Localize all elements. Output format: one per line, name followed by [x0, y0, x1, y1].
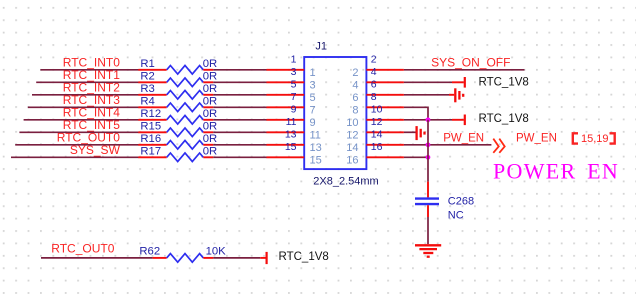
- wire pin8 to bus node: [404, 107, 428, 120]
- svg-text:0R: 0R: [203, 145, 217, 157]
- pin 12 (J1 right): [346, 116, 404, 141]
- svg-text:10: 10: [371, 104, 383, 116]
- sheet ref [15,19]: [573, 133, 615, 145]
- pin 3 (J1 left): [267, 66, 316, 91]
- svg-text:RTC_OUT0: RTC_OUT0: [51, 241, 114, 255]
- svg-text:POWER EN: POWER EN: [493, 158, 619, 183]
- svg-text:13: 13: [310, 142, 322, 154]
- junction PW_EN: [426, 142, 431, 147]
- svg-text:13: 13: [285, 129, 297, 141]
- svg-text:R1: R1: [140, 58, 154, 70]
- svg-text:12: 12: [346, 130, 358, 142]
- svg-text:14: 14: [371, 129, 383, 141]
- svg-text:2: 2: [352, 67, 358, 79]
- svg-text:7: 7: [310, 105, 316, 117]
- pin 13 (J1 left): [267, 129, 322, 154]
- pin 1 (J1 left): [267, 54, 316, 79]
- wire pin4 to RTC_1V8: [404, 81, 452, 83]
- resistor R1 value 0R: [138, 58, 217, 74]
- svg-text:1: 1: [310, 67, 316, 79]
- pin 6 (J1 right): [352, 79, 404, 104]
- connector J1 2X8_2.54mm: [304, 57, 366, 169]
- svg-text:0R: 0R: [203, 70, 217, 82]
- resistor R17 value 0R: [138, 145, 217, 161]
- svg-text:R17: R17: [140, 145, 161, 157]
- pin 5 (J1 left): [267, 79, 316, 104]
- wire C268 to ground: [427, 217, 429, 244]
- svg-text:10K: 10K: [206, 246, 227, 258]
- svg-text:C268: C268: [448, 195, 474, 207]
- wire SYS_SW to J1: [213, 156, 267, 158]
- svg-text:R15: R15: [140, 120, 161, 132]
- svg-text:PW_EN: PW_EN: [516, 133, 557, 145]
- junction pin8/pin10: [426, 117, 431, 122]
- wire RTC_INT0 to J1: [213, 69, 267, 71]
- svg-text:R4: R4: [140, 95, 154, 107]
- svg-text:10: 10: [346, 117, 358, 129]
- wire R62 to RTC_1V8: [213, 257, 260, 259]
- pin 7 (J1 left): [267, 91, 316, 116]
- svg-text:4: 4: [371, 66, 377, 78]
- wire RTC_INT5 to J1: [213, 131, 267, 133]
- pin 10 (J1 right): [346, 104, 404, 129]
- wire net RTC_INT3 left: [28, 106, 139, 108]
- svg-text:RTC_1V8: RTC_1V8: [279, 251, 329, 263]
- wire net RTC_OUT0 left: [15, 144, 138, 146]
- resistor R2 value 0R: [138, 70, 217, 86]
- pin 4 (J1 right): [352, 66, 404, 91]
- svg-text:2X8_2.54mm: 2X8_2.54mm: [313, 176, 378, 188]
- earth ground (pin 6): [455, 88, 463, 102]
- pin 2 (J1 right): [352, 54, 404, 79]
- svg-text:0R: 0R: [203, 95, 217, 107]
- svg-text:R12: R12: [140, 108, 161, 120]
- wire pin10 to RTC_1V8: [404, 119, 428, 121]
- earth ground (pin 12): [417, 126, 425, 140]
- svg-text:6: 6: [352, 92, 358, 104]
- svg-text:5: 5: [310, 92, 316, 104]
- svg-text:SYS_SW: SYS_SW: [70, 143, 121, 157]
- svg-text:16: 16: [346, 155, 358, 167]
- wire net SYS_SW left: [11, 156, 139, 158]
- svg-text:12: 12: [371, 116, 383, 128]
- svg-text:R2: R2: [140, 70, 154, 82]
- resistor R3 value 0R: [138, 83, 217, 99]
- wire net SYS_ON_OFF: [404, 69, 525, 71]
- svg-text:4: 4: [352, 80, 358, 92]
- svg-text:9: 9: [291, 104, 297, 116]
- resistor R12 value 0R: [138, 108, 217, 124]
- wire RTC_INT1 to J1: [213, 81, 267, 83]
- wire net RTC_OUT0 (bottom): [41, 257, 153, 259]
- pin 9 (J1 left): [267, 104, 316, 129]
- svg-text:9: 9: [310, 117, 316, 129]
- wire RTC_INT4 to J1: [213, 119, 267, 121]
- ground: [415, 245, 441, 256]
- resistor R4 value 0R: [138, 95, 217, 111]
- resistor R16 value 0R: [138, 133, 217, 149]
- svg-text:0R: 0R: [203, 108, 217, 120]
- svg-text:0R: 0R: [203, 133, 217, 145]
- svg-text:8: 8: [352, 105, 358, 117]
- svg-text:0R: 0R: [203, 83, 217, 95]
- svg-text:2: 2: [371, 54, 377, 66]
- wire net RTC_INT1 left: [36, 81, 138, 83]
- wire RTC_INT3 to J1: [213, 106, 267, 108]
- svg-text:RTC_1V8: RTC_1V8: [479, 77, 529, 89]
- svg-text:6: 6: [371, 79, 377, 91]
- wire pin14 / PW_EN: [404, 144, 428, 146]
- svg-text:RTC_1V8: RTC_1V8: [479, 113, 529, 125]
- svg-text:15: 15: [310, 155, 322, 167]
- svg-text:11: 11: [310, 130, 321, 142]
- svg-text:R16: R16: [140, 133, 161, 145]
- wire pin12 to ground: [404, 131, 416, 133]
- resistor R62 value 10K: [139, 246, 226, 263]
- pin 16 (J1 right): [346, 141, 404, 166]
- power port RTC_1V8 (R62): [260, 252, 266, 264]
- svg-text:R3: R3: [140, 83, 154, 95]
- svg-text:16: 16: [371, 141, 383, 153]
- svg-text:14: 14: [346, 142, 358, 154]
- pin 11 (J1 left): [267, 116, 321, 141]
- junction pin16: [426, 155, 431, 160]
- wire vertical bus pin8..C268: [427, 120, 429, 145]
- svg-text:0R: 0R: [203, 58, 217, 70]
- svg-text:PW_EN: PW_EN: [443, 133, 484, 145]
- wire net RTC_INT2 left: [32, 94, 139, 96]
- svg-text:NC: NC: [448, 210, 464, 222]
- svg-text:11: 11: [286, 116, 297, 128]
- svg-text:3: 3: [310, 80, 316, 92]
- pin 15 (J1 left): [267, 141, 322, 166]
- svg-text:7: 7: [291, 91, 297, 103]
- wire RTC_OUT0 to J1: [213, 144, 267, 146]
- svg-text:15,19: 15,19: [581, 133, 609, 145]
- wire net RTC_INT4 left: [24, 119, 139, 121]
- svg-text:5: 5: [291, 79, 297, 91]
- svg-text:15: 15: [285, 141, 297, 153]
- svg-text:R62: R62: [139, 246, 160, 258]
- svg-text:3: 3: [291, 66, 297, 78]
- wire net RTC_INT0 left: [40, 69, 138, 71]
- svg-text:0R: 0R: [203, 120, 217, 132]
- resistor R15 value 0R: [138, 120, 217, 136]
- svg-text:1: 1: [291, 54, 297, 66]
- wire RTC_INT2 to J1: [213, 94, 267, 96]
- wire net RTC_INT5 left: [19, 131, 138, 133]
- svg-text:SYS_ON_OFF: SYS_ON_OFF: [431, 56, 510, 70]
- power port RTC_1V8 (pin 4): [452, 77, 465, 88]
- port chevron >>: [493, 139, 498, 153]
- wire pin6 to ground: [404, 94, 449, 96]
- power port RTC_1V8 (pin 10): [452, 115, 465, 126]
- wire pin16 to bus: [404, 156, 428, 158]
- capacitor C268 NC: [415, 182, 474, 222]
- svg-text:8: 8: [371, 91, 377, 103]
- svg-text:J1: J1: [315, 40, 327, 52]
- pin 14 (J1 right): [346, 129, 404, 154]
- pin 8 (J1 right): [352, 91, 404, 116]
